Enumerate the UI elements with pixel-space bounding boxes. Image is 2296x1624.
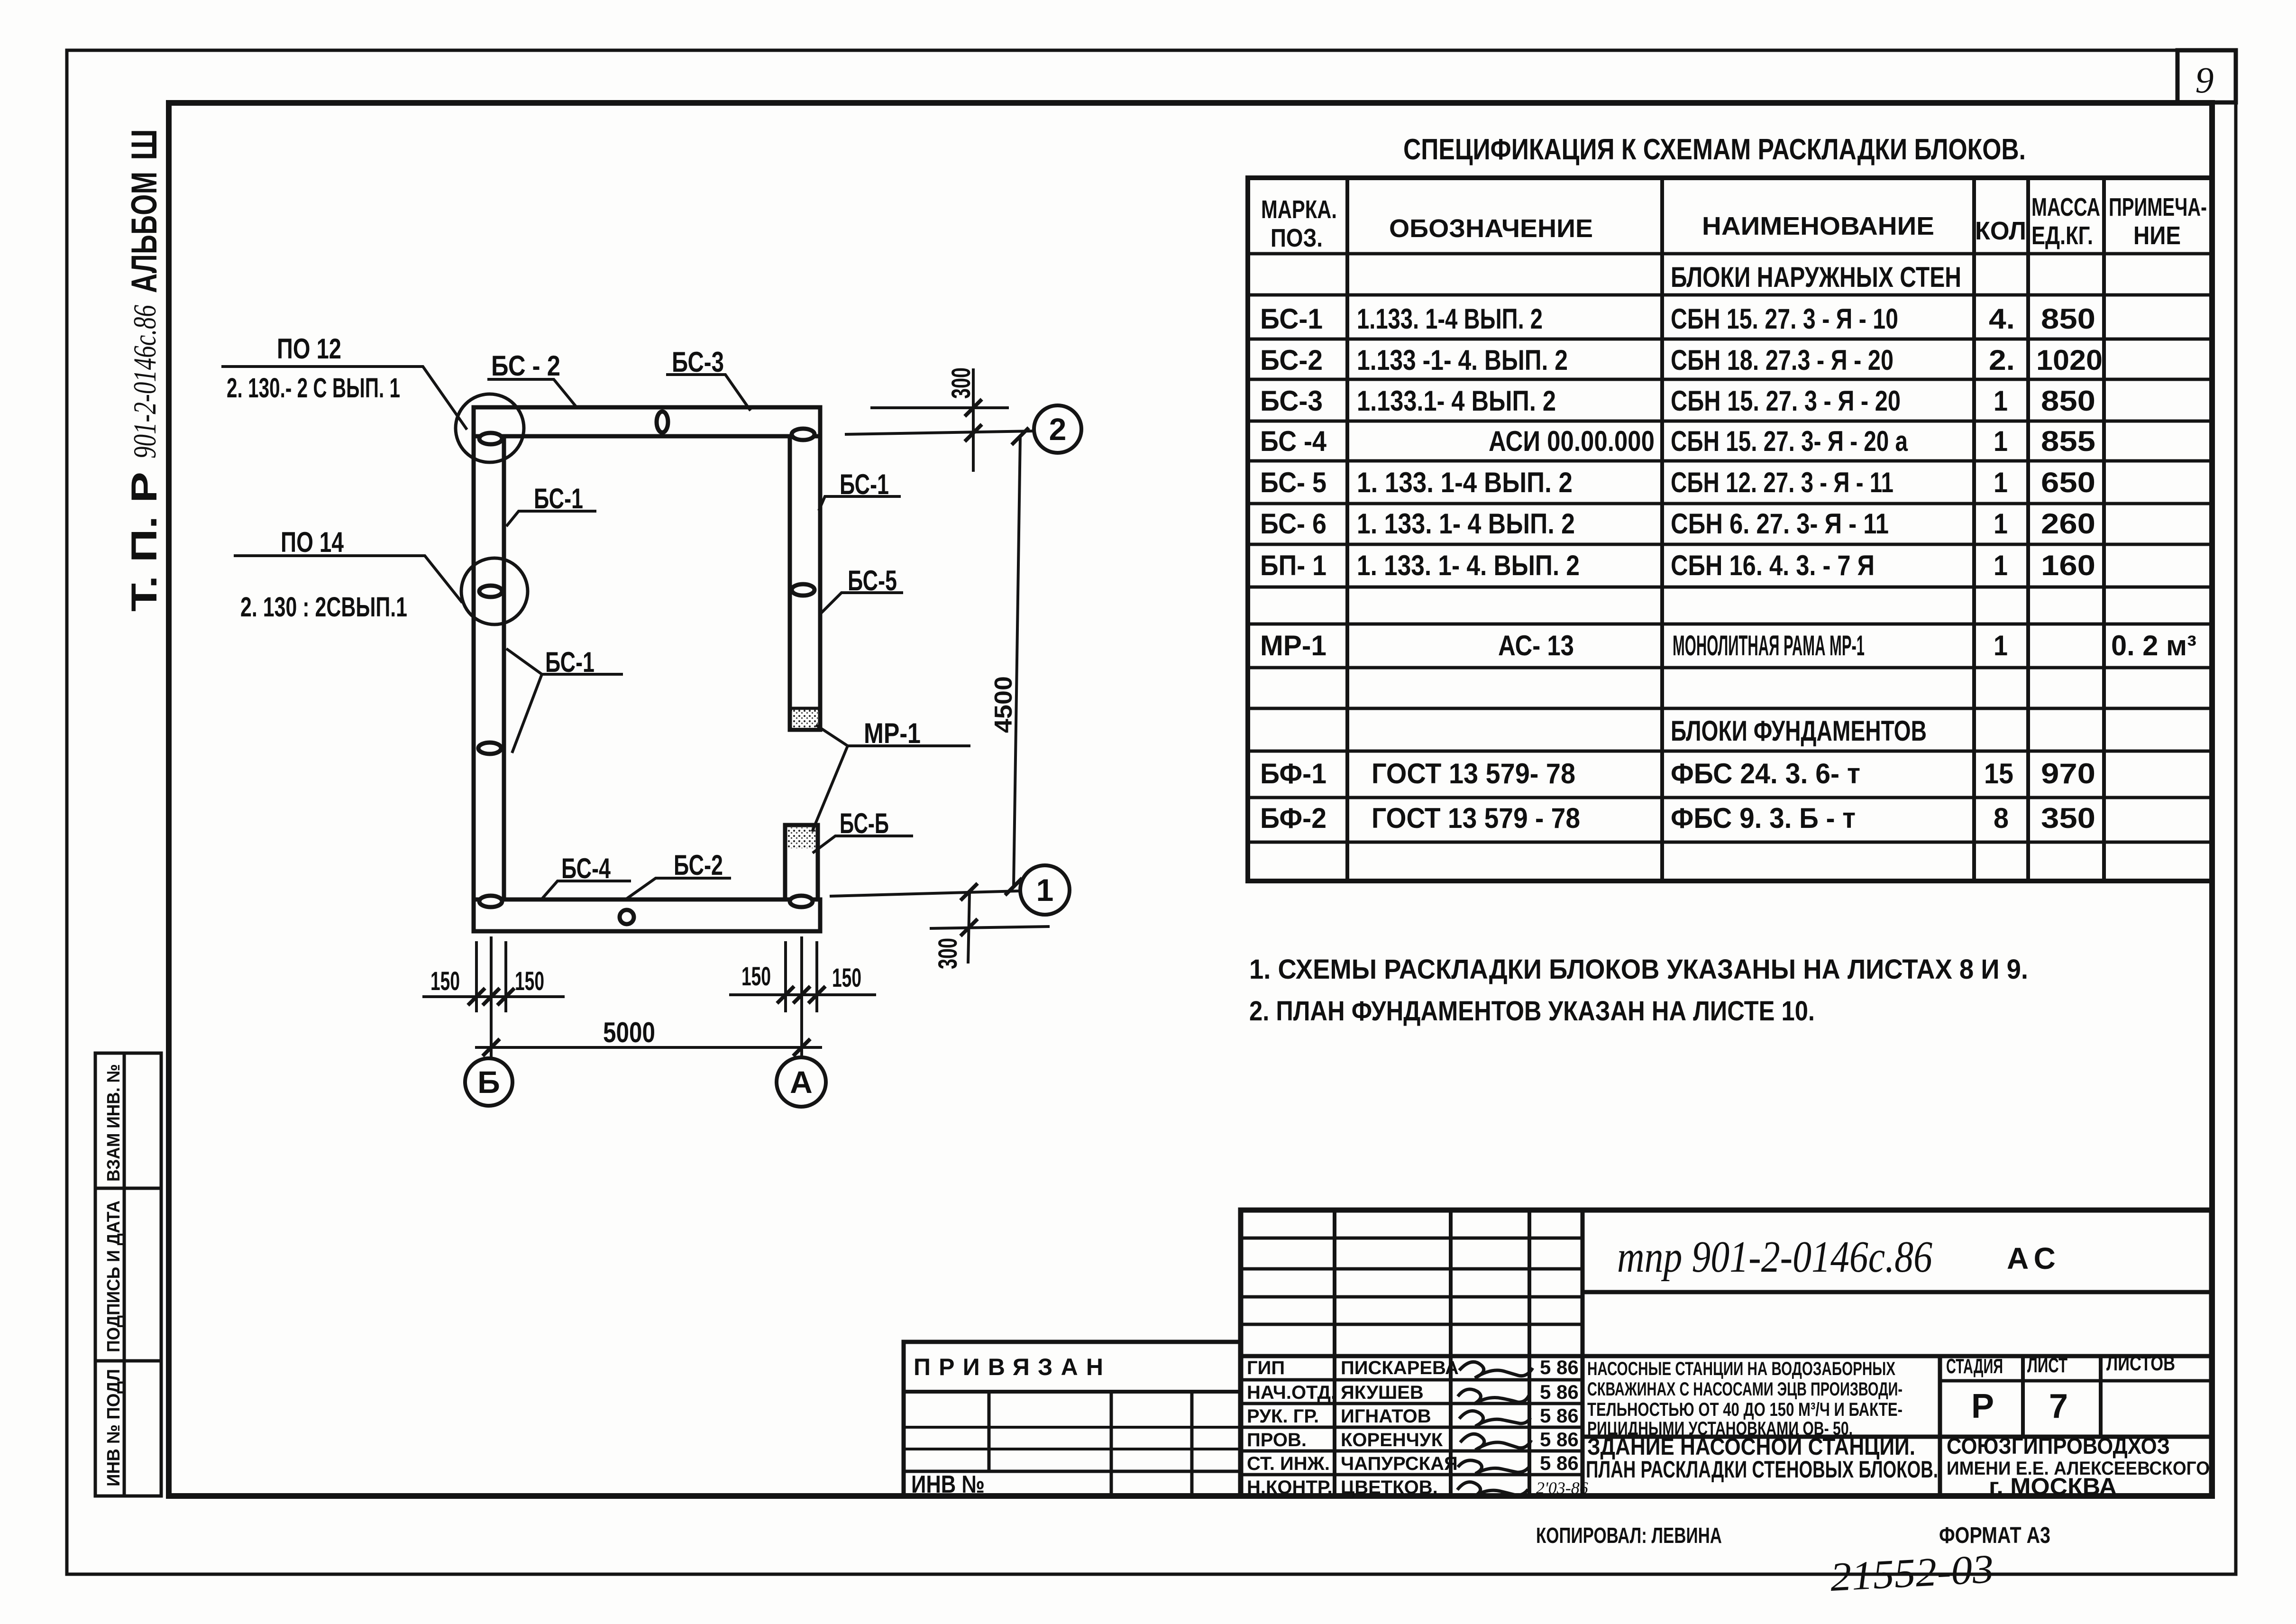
svg-text:150: 150	[515, 966, 544, 996]
leader по 12 node	[221, 367, 467, 430]
vertical document designation: Т.П.Р 901-2-0146с.86 АЛЬБОМ III	[124, 129, 165, 612]
svg-text:7: 7	[2049, 1387, 2068, 1425]
middle row lines	[904, 1426, 1241, 1429]
svg-text:СБН 15. 27. 3- Я - 20 а: СБН 15. 27. 3- Я - 20 а	[1671, 425, 1908, 457]
vertical divider sign/date	[1528, 1210, 1531, 1496]
svg-text:СПЕЦИФИКАЦИЯ К СХЕМАМ РАСКЛАДК: СПЕЦИФИКАЦИЯ К СХЕМАМ РАСКЛАДКИ БЛОКОВ.	[1403, 133, 2026, 166]
svg-text:1.133. 1-4 ВЫП. 2: 1.133. 1-4 ВЫП. 2	[1357, 303, 1543, 335]
svg-text:ЦВЕТКОВ.: ЦВЕТКОВ.	[1341, 1477, 1438, 1498]
personnel roles	[1247, 1358, 1336, 1498]
block joint mark left wall bottom	[479, 896, 502, 907]
svg-text:4500: 4500	[990, 676, 1017, 733]
svg-text:АС- 13: АС- 13	[1498, 630, 1574, 661]
svg-text:1.133.1- 4 ВЫП. 2: 1.133.1- 4 ВЫП. 2	[1357, 385, 1556, 417]
svg-text:Т. П. Р: Т. П. Р	[124, 472, 165, 612]
wall block БС-2/БС-3 top wall	[474, 407, 820, 436]
svg-text:300: 300	[933, 938, 962, 969]
svg-text:ИНВ №: ИНВ №	[911, 1471, 985, 1498]
leader БС-6	[813, 836, 913, 853]
axis circle А	[777, 1057, 826, 1107]
svg-text:КОЛ: КОЛ	[1975, 217, 2026, 245]
designation cell bottom line	[1583, 1290, 2212, 1294]
svg-text:2. ПЛАН ФУНДАМЕНТОВ УКАЗАН НА: 2. ПЛАН ФУНДАМЕНТОВ УКАЗАН НА ЛИСТЕ 10.	[1249, 996, 1815, 1027]
vertical divider role/name	[1333, 1210, 1336, 1496]
svg-text:ФБС 9. 3. Б - т: ФБС 9. 3. Б - т	[1671, 802, 1856, 834]
block joint mark bottom wall center	[620, 910, 634, 924]
svg-text:1. 133. 1- 4. ВЫП. 2: 1. 133. 1- 4. ВЫП. 2	[1357, 550, 1580, 581]
detail circle node top-left corner	[456, 394, 524, 462]
upper small revision rows	[1241, 1238, 1583, 1324]
svg-text:1: 1	[1994, 630, 2008, 661]
svg-text:5 86: 5 86	[1540, 1404, 1579, 1427]
svg-text:260: 260	[2041, 508, 2095, 540]
block joint mark right wall	[792, 584, 814, 596]
inner main drawing frame	[169, 103, 2212, 1496]
svg-text:НАЧ.ОТД.: НАЧ.ОТД.	[1247, 1382, 1336, 1403]
svg-text:1: 1	[1994, 467, 2008, 498]
block БС-6 bottom right	[785, 825, 818, 899]
monolithic frame МР-1 on right wall	[790, 709, 820, 730]
block joint mark top wall center	[657, 412, 668, 432]
svg-text:БФ-1: БФ-1	[1260, 758, 1326, 789]
svg-text:МР-1: МР-1	[864, 717, 921, 749]
svg-text:ЛИСТОВ: ЛИСТОВ	[2106, 1352, 2175, 1375]
stage header	[1946, 1352, 2175, 1425]
svg-text:БЛОКИ НАРУЖНЫХ СТЕН: БЛОКИ НАРУЖНЫХ СТЕН	[1671, 261, 1961, 293]
svg-text:21552-03: 21552-03	[1829, 1546, 1995, 1600]
svg-text:СБН 16. 4. 3. - 7 Я: СБН 16. 4. 3. - 7 Я	[1671, 550, 1875, 581]
svg-text:ЛИСТ: ЛИСТ	[2027, 1354, 2067, 1377]
svg-text:1.133 -1- 4. ВЫП. 2: 1.133 -1- 4. ВЫП. 2	[1357, 344, 1568, 376]
svg-text:350: 350	[2041, 802, 2095, 834]
extension line top wall face	[870, 406, 1009, 409]
tick 4500 bottom	[1005, 878, 1022, 895]
svg-text:1. 133. 1- 4 ВЫП. 2: 1. 133. 1- 4 ВЫП. 2	[1357, 508, 1575, 540]
detail circle node left wall	[461, 558, 528, 624]
svg-text:300: 300	[946, 367, 976, 399]
svg-text:855: 855	[2041, 425, 2095, 457]
svg-text:ПИСКАРЕВА: ПИСКАРЕВА	[1341, 1358, 1459, 1378]
svg-text:1: 1	[1994, 425, 2008, 457]
tick 300 top a	[965, 399, 982, 416]
leader БС-2 top	[487, 379, 577, 408]
svg-text:2'03-86: 2'03-86	[1536, 1478, 1588, 1497]
svg-text:БС-Б: БС-Б	[840, 807, 889, 839]
extension lines below left wall	[476, 936, 506, 1058]
svg-text:БС-1: БС-1	[545, 646, 595, 678]
svg-text:ФБС 24. 3. 6- т: ФБС 24. 3. 6- т	[1671, 758, 1860, 789]
svg-text:150: 150	[741, 961, 771, 991]
svg-text:ПОЗ.: ПОЗ.	[1271, 224, 1323, 252]
svg-text:901-2-0146с.86: 901-2-0146с.86	[127, 305, 163, 459]
svg-text:СБН 6. 27. 3- Я - 11: СБН 6. 27. 3- Я - 11	[1671, 508, 1889, 540]
svg-text:150: 150	[832, 963, 861, 992]
dim line 5000	[475, 1046, 822, 1049]
svg-text:АСИ 00.00.000: АСИ 00.00.000	[1489, 425, 1655, 457]
leader БС-1 left upper	[506, 511, 596, 526]
svg-text:г. МОСКВА: г. МОСКВА	[1989, 1473, 2117, 1500]
stage header dividers	[2021, 1356, 2025, 1437]
vertical divider name/sign	[1449, 1210, 1453, 1496]
svg-text:МАССА: МАССА	[2031, 193, 2100, 221]
axis 1 line	[830, 891, 1020, 896]
svg-text:5 86: 5 86	[1540, 1381, 1579, 1403]
header texts	[1261, 193, 2207, 252]
svg-text:1020: 1020	[2036, 344, 2103, 376]
wall blocks БС-1/БС-5 right wall upper segment	[790, 436, 820, 709]
block joint mark left wall middle	[479, 586, 502, 597]
extension lines below right wall	[786, 936, 817, 1057]
svg-text:БП- 1: БП- 1	[1260, 550, 1326, 581]
svg-text:СТ. ИНЖ.: СТ. ИНЖ.	[1247, 1453, 1330, 1474]
block joint mark bottom wall right	[790, 896, 813, 907]
svg-text:МАРКА.: МАРКА.	[1261, 195, 1337, 224]
block joint mark top wall right	[792, 429, 814, 440]
svg-text:ФОРМАТ А3: ФОРМАТ А3	[1939, 1523, 2050, 1548]
svg-text:ЧАПУРСКАЯ: ЧАПУРСКАЯ	[1341, 1453, 1458, 1474]
table data	[1260, 261, 2196, 834]
svg-text:тпр 901-2-0146с.86: тпр 901-2-0146с.86	[1617, 1232, 1932, 1282]
svg-text:ПРИМЕЧА-: ПРИМЕЧА-	[2109, 193, 2207, 221]
svg-text:БС-2: БС-2	[674, 849, 723, 881]
drawing title	[1586, 1433, 1938, 1483]
svg-text:ГОСТ 13 579- 78: ГОСТ 13 579- 78	[1372, 758, 1575, 789]
svg-text:8: 8	[1994, 802, 2009, 834]
svg-text:150: 150	[430, 966, 460, 996]
svg-text:1: 1	[1036, 872, 1054, 908]
svg-text:5 86: 5 86	[1540, 1428, 1579, 1450]
tick 300 bottom b	[960, 919, 978, 936]
axis circle 1	[1020, 865, 1070, 915]
svg-text:БФ-2: БФ-2	[1260, 802, 1326, 834]
svg-text:2.: 2.	[1989, 344, 2015, 376]
svg-text:ГОСТ 13 579 - 78: ГОСТ 13 579 - 78	[1372, 802, 1580, 834]
svg-text:1. СХЕМЫ РАСКЛАДКИ БЛОКОВ УКАЗ: 1. СХЕМЫ РАСКЛАДКИ БЛОКОВ УКАЗАНЫ НА ЛИС…	[1249, 954, 2028, 985]
leader БС-1 right	[819, 496, 901, 511]
svg-text:БЛОКИ ФУНДАМЕНТОВ: БЛОКИ ФУНДАМЕНТОВ	[1671, 715, 1927, 747]
table grid	[1248, 178, 2212, 881]
extension line bottom wall face	[930, 927, 1050, 928]
leader по 14 node	[234, 556, 462, 603]
svg-text:БС-1: БС-1	[840, 468, 889, 500]
svg-text:ГИП: ГИП	[1247, 1358, 1285, 1378]
svg-text:КОРЕНЧУК: КОРЕНЧУК	[1341, 1430, 1443, 1450]
svg-text:160: 160	[2041, 550, 2095, 581]
svg-text:9: 9	[2195, 59, 2214, 101]
dim line 150-150 right	[729, 993, 876, 996]
svg-text:850: 850	[2041, 385, 2095, 417]
svg-text:5 86: 5 86	[1540, 1452, 1579, 1474]
block joint mark left wall lower	[478, 743, 501, 754]
svg-text:5 86: 5 86	[1540, 1356, 1579, 1378]
svg-text:НИЕ: НИЕ	[2133, 221, 2181, 250]
block joint mark left wall top	[479, 433, 502, 444]
svg-text:ПРОВ.: ПРОВ.	[1247, 1430, 1307, 1450]
monolithic frame МР-1 on БС-6	[787, 827, 815, 848]
svg-text:2: 2	[1049, 412, 1067, 447]
svg-text:РУК. ГР.: РУК. ГР.	[1247, 1406, 1319, 1427]
svg-text:БС-1: БС-1	[1260, 303, 1323, 335]
privyazan outer box	[904, 1342, 1241, 1496]
svg-text:СБН 12. 27. 3 - Я - 11: СБН 12. 27. 3 - Я - 11	[1671, 467, 1894, 498]
leader БС-5	[820, 593, 903, 615]
svg-text:БС- 6: БС- 6	[1260, 508, 1326, 540]
svg-text:СОЮЗГИПРОВОДХОЗ: СОЮЗГИПРОВОДХОЗ	[1947, 1434, 2170, 1459]
svg-text:СБН 15. 27. 3 - Я - 10: СБН 15. 27. 3 - Я - 10	[1671, 303, 1898, 335]
svg-text:ПО 12: ПО 12	[277, 333, 341, 365]
svg-text:ЯКУШЕВ: ЯКУШЕВ	[1341, 1382, 1424, 1403]
svg-text:БС -4: БС -4	[1260, 425, 1327, 457]
svg-text:СТАДИЯ: СТАДИЯ	[1946, 1355, 2003, 1378]
svg-text:Ш: Ш	[124, 129, 165, 160]
svg-text:СКВАЖИНАХ С НАСОСАМИ ЭЦВ ПРОИ: СКВАЖИНАХ С НАСОСАМИ ЭЦВ ПРОИЗВОДИ-	[1587, 1379, 1903, 1400]
dates	[1536, 1356, 1588, 1497]
wall blocks БС-1 left wall	[474, 436, 504, 899]
svg-text:5000: 5000	[603, 1017, 655, 1048]
leader МР-1 double	[812, 725, 970, 832]
svg-text:АС: АС	[2007, 1241, 2061, 1275]
svg-text:БС-3: БС-3	[672, 346, 724, 378]
svg-text:2. 130.- 2 С ВЫП. 1: 2. 130.- 2 С ВЫП. 1	[227, 373, 400, 404]
ticks 150 left	[468, 988, 514, 1005]
axis circle 2	[1034, 405, 1081, 453]
svg-text:ОБОЗНАЧЕНИЕ: ОБОЗНАЧЕНИЕ	[1389, 214, 1593, 243]
svg-text:ПО 14: ПО 14	[281, 526, 344, 558]
page number box top-right	[2177, 50, 2236, 102]
organization	[1947, 1434, 2210, 1500]
svg-text:БС- 5: БС- 5	[1260, 467, 1326, 498]
leader БС-1 left lower double	[506, 649, 623, 753]
svg-text:1: 1	[1994, 508, 2008, 540]
tick 4500 top	[1012, 428, 1029, 445]
leader БС-4	[541, 881, 631, 900]
column dividers	[988, 1392, 991, 1471]
svg-text:БС - 2: БС - 2	[491, 350, 560, 382]
svg-text:Б: Б	[477, 1064, 500, 1100]
svg-text:КОПИРОВАЛ: ЛЕВИНА: КОПИРОВАЛ: ЛЕВИНА	[1536, 1523, 1722, 1548]
svg-text:ПОДПИСЬ И ДАТА: ПОДПИСЬ И ДАТА	[104, 1201, 124, 1352]
svg-text:1. 133. 1-4 ВЫП. 2: 1. 133. 1-4 ВЫП. 2	[1357, 467, 1573, 498]
svg-text:ПЛАН РАСКЛАДКИ СТЕНОВЫХ БЛОКО: ПЛАН РАСКЛАДКИ СТЕНОВЫХ БЛОКОВ.	[1586, 1456, 1938, 1483]
axis 2 line	[845, 431, 1034, 434]
left margin stamp strip	[95, 1053, 161, 1496]
svg-text:ИГНАТОВ: ИГНАТОВ	[1341, 1406, 1431, 1427]
tick 300 top b	[965, 424, 982, 441]
tick 5000 right	[793, 1039, 810, 1056]
svg-text:ТЕЛЬНОСТЬЮ ОТ 40 ДО 150 М³/Ч: ТЕЛЬНОСТЬЮ ОТ 40 ДО 150 М³/Ч И БАКТЕ-	[1587, 1399, 1903, 1420]
vertical divider project text / stage	[1938, 1356, 1942, 1496]
signatures (handwritten squiggles)	[1457, 1362, 1533, 1497]
svg-text:МР-1: МР-1	[1260, 630, 1326, 661]
svg-text:АЛЬБОМ: АЛЬБОМ	[124, 172, 165, 293]
tick 300 bottom a	[960, 883, 978, 900]
svg-text:2. 130 : 2СВЫП.1: 2. 130 : 2СВЫП.1	[240, 592, 407, 623]
personnel names	[1341, 1358, 1459, 1498]
svg-text:650: 650	[2041, 467, 2095, 498]
svg-text:1: 1	[1994, 385, 2008, 417]
svg-text:СБН 15. 27. 3 - Я - 20: СБН 15. 27. 3 - Я - 20	[1671, 385, 1901, 417]
leader БС-3	[666, 375, 750, 411]
stage header row bottom	[1940, 1379, 2212, 1383]
svg-text:970: 970	[2041, 758, 2095, 789]
svg-text:СБН 18. 27.3 - Я - 20: СБН 18. 27.3 - Я - 20	[1671, 344, 1894, 376]
svg-text:4.: 4.	[1989, 303, 2015, 335]
svg-text:БС-1: БС-1	[534, 483, 583, 514]
svg-text:А: А	[790, 1064, 813, 1100]
svg-text:ЕД.КГ.: ЕД.КГ.	[2031, 221, 2093, 250]
dim line 150-150 left	[422, 995, 565, 998]
svg-text:1: 1	[1994, 550, 2008, 581]
svg-text:БС-3: БС-3	[1260, 385, 1323, 417]
drawing title row line	[1583, 1435, 2212, 1439]
dim connector 300 bottom	[968, 893, 970, 963]
personnel rows top line	[1241, 1354, 2212, 1358]
svg-text:БС-5: БС-5	[848, 565, 897, 596]
tick 5000 left	[483, 1039, 500, 1056]
svg-text:НАИМЕНОВАНИЕ: НАИМЕНОВАНИЕ	[1702, 212, 1934, 240]
svg-text:ВЗАМ ИНВ. №: ВЗАМ ИНВ. №	[104, 1064, 124, 1182]
svg-text:МОНОЛИТНАЯ РАМА МР-1: МОНОЛИТНАЯ РАМА МР-1	[1673, 630, 1865, 661]
leader БС-2 bottom	[625, 878, 731, 900]
header row bottom	[904, 1390, 1241, 1394]
svg-text:0. 2 м³: 0. 2 м³	[2111, 630, 2196, 661]
ticks 150 right	[777, 986, 825, 1003]
dim line 4500	[1014, 436, 1020, 887]
svg-text:850: 850	[2041, 303, 2095, 335]
vertical divider date/main	[1581, 1210, 1585, 1496]
svg-text:15: 15	[1984, 758, 2013, 789]
svg-text:БС-4: БС-4	[561, 853, 611, 884]
plan label texts	[227, 333, 1066, 1100]
project description	[1587, 1358, 1903, 1439]
axis circle Б	[465, 1058, 512, 1106]
svg-text:БС-2: БС-2	[1260, 344, 1323, 376]
svg-text:Р: Р	[1971, 1387, 1994, 1425]
dim connector 300 top	[972, 368, 975, 472]
wall blocks БС-4/БС-2 bottom wall	[474, 899, 820, 931]
svg-text:ИНВ № ПОДЛ: ИНВ № ПОДЛ	[104, 1369, 124, 1486]
svg-text:Н.КОНТР.: Н.КОНТР.	[1247, 1477, 1333, 1498]
svg-text:НАСОСНЫЕ СТАНЦИИ НА ВОДОЗАБОРН: НАСОСНЫЕ СТАНЦИИ НА ВОДОЗАБОРНЫХ	[1587, 1358, 1895, 1379]
title block outer box	[1241, 1210, 2212, 1496]
